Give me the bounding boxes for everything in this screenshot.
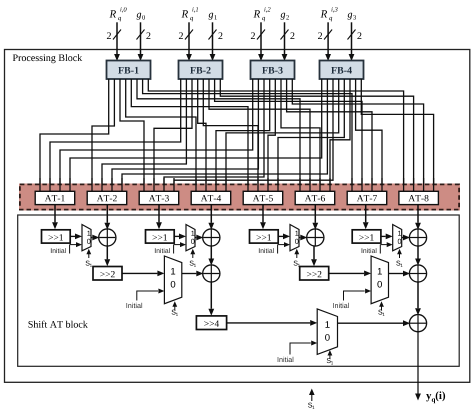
wire mux to adder (stage2 group 2) [389,271,411,277]
wire AT-4 output to adder [208,205,214,230]
wire AT-6 output to adder [312,205,318,230]
wire input g0 to FB-1 (2 bits) [137,22,151,61]
select S1 into mux (stage3) [327,350,333,365]
wire FB-4 output 2 to AT-2 input 4 [122,79,327,192]
wire input Rq i,0 to FB-1 (2 bits) [107,22,121,61]
wire FB-1 output 7 to AT-7 input 1 [143,79,352,192]
wire into AT-8 pin 2 [413,178,415,192]
input label Rq i,3 [321,7,338,21]
wire FB-1 output 8 to AT-8 input 1 [148,79,403,192]
adder (stage2 group 1) [203,265,220,282]
wire FB-3 output 7 to AT-7 input 3 [287,79,372,192]
wire into AT-8 pin 3 [423,178,425,192]
wire shifter >>2 to mux (stage2 group 2) [329,271,371,277]
wire into AT-4 pin 3 [215,178,217,192]
wire FB-3 output 6 to AT-6 input 3 [281,79,320,192]
shifter >>1 (group 1) [42,230,71,243]
wire shifter to mux input 1 (group 3) [278,234,290,240]
block AT-6 [295,191,335,204]
mux 2:1 (group 1) [82,225,91,251]
wire FB-2 output 2 to AT-2 input 2 [102,79,186,192]
wire into AT-2 pin 3 [111,178,113,192]
select S1 into mux (group 1) [86,249,92,267]
wire FB-3 output 3 to AT-3 input 3 [164,79,264,192]
wire FB-2 output 8 to AT-8 input 2 [220,79,413,192]
shifter >>2 (stage2 group 1) [93,267,122,281]
wire FB-1 output 5 to AT-5 input 1 [131,79,248,192]
wire stage2 adder down to final adder [415,282,421,316]
wire FB-4 output 6 to AT-6 input 4 [330,79,350,192]
wire AT-7 output to shifter [363,205,369,230]
wire stage2 adder to shifter >>4 [208,282,214,316]
select S1 into mux (group 2) [190,249,196,267]
wire FB-2 output 6 to AT-6 input 2 [209,79,310,192]
Shift AT block enclosure [18,215,460,366]
wire shifter to mux input 1 (group 1) [70,234,82,240]
select S1 into mux (stage2 group 2) [378,301,384,316]
output label yq(i) [426,391,445,403]
wire AT-3 output to shifter [156,205,162,230]
wire mux to adder (stage2 group 1) [182,271,204,277]
wire FB-4 output 4 to AT-4 input 4 [226,79,339,192]
adder (group 3) [307,229,324,246]
block FB-2 [179,61,223,80]
select S1 into mux (group 4) [396,249,402,267]
wire shifter to mux input 1 (group 4) [381,234,393,240]
wire FB-3 output 1 to AT-1 input 3 [60,79,253,192]
wire FB-1 output 4 to AT-4 input 1 [126,79,196,192]
final adder [409,315,426,332]
Initial input (stage2 group 2) [333,289,371,309]
shifter >>1 (group 4) [352,230,381,243]
wire FB-1 output 1 to AT-1 input 1 [40,79,109,192]
input label g0 [137,13,146,20]
wire upper adder down to stage2 adder (group 1) [208,246,214,266]
wire into AT-6 pin 2 [309,178,311,192]
wire upper adder down to stage2 adder (group 2) [415,246,421,266]
adder (group 4) [409,229,426,246]
wire FB-4 output 5 to AT-5 input 4 [278,79,344,192]
wire into AT-2 pin 4 [121,178,123,192]
wire FB-1 output 2 to AT-2 input 1 [92,79,114,192]
wire into AT-7 pin 4 [381,178,383,192]
wire adder to shifter >>2 (stage2 group 1) [104,246,110,267]
wire into AT-2 pin 1 [91,178,93,192]
wire mux to adder (group 3) [299,235,307,241]
wire into AT-1 pin 2 [49,178,51,192]
wire mux to adder (group 4) [402,235,410,241]
block AT-3 [139,191,179,204]
shifter >>1 (group 3) [250,230,279,243]
wire into AT-4 pin 4 [225,178,227,192]
Initial input (stage2 group 1) [127,289,165,309]
block AT-1 [35,191,74,204]
wire into AT-3 pin 1 [143,178,145,192]
wire FB-2 output 4 to AT-4 input 2 [198,79,206,192]
shifter >>4 [196,316,226,330]
wire into AT-1 pin 3 [59,178,61,192]
Initial input (group 2) [155,242,186,253]
wire FB-4 output 1 to AT-1 input 4 [70,79,322,192]
wire into AT-5 pin 1 [247,178,249,192]
block FB-4 [320,61,364,80]
wire into AT-4 pin 1 [195,178,197,192]
input label Rq i,1 [181,7,198,21]
select S1 into mux (stage2 group 1) [172,301,178,316]
wire AT-2 output to adder [104,205,110,230]
wire into AT-1 pin 4 [69,178,71,192]
wire FB-2 output 1 to AT-1 input 2 [50,79,181,192]
wire adder to shifter >>2 (stage2 group 2) [311,246,317,267]
wire into AT-4 pin 2 [205,178,207,192]
wire into AT-5 pin 3 [267,178,269,192]
wire mux to adder (group 1) [91,235,99,241]
mux 2:1 (group 3) [290,225,299,251]
wire into AT-1 pin 1 [39,178,41,192]
wire AT-1 output to shifter [52,205,58,230]
wire input g2 to FB-3 (2 bits) [281,22,295,61]
wire FB-2 output 3 to AT-3 input 2 [154,79,192,192]
wire FB-1 output 6 to AT-6 input 1 [137,79,300,192]
block AT-4 [191,191,231,204]
wire mux to adder (group 2) [195,235,203,241]
mux 2:1 (group 4) [393,225,402,251]
Initial input (group 1) [51,242,82,253]
output wire yq(i) [415,331,421,400]
adder (stage2 group 2) [409,265,426,282]
wire input Rq i,1 to FB-2 (2 bits) [179,22,193,61]
wire input g3 to FB-4 (2 bits) [348,22,362,61]
mux 2:1 (group 2) [186,225,195,251]
wire into AT-5 pin 2 [257,178,259,192]
input label g3 [348,13,357,20]
wire into AT-7 pin 2 [361,178,363,192]
wire into AT-8 pin 4 [433,178,435,192]
wire FB-1 output 3 to AT-3 input 1 [120,79,144,192]
input label g2 [281,13,289,20]
wire shifter to mux input 1 (group 2) [174,234,186,240]
wire FB-3 output 4 to AT-4 input 3 [216,79,270,192]
input label Rq i,2 [253,7,270,21]
wire AT-8 output to adder [415,205,421,230]
mux 2:1 (stage2 group 1) [164,256,181,304]
block AT-7 [347,191,387,204]
wire into AT-8 pin 1 [403,178,405,192]
wire input Rq i,3 to FB-4 (2 bits) [318,22,332,61]
mux 2:1 (stage2 group 2) [371,256,388,304]
wire into AT-3 pin 3 [163,178,165,192]
adder (group 1) [99,229,116,246]
block AT-5 [243,191,283,204]
wire into AT-3 pin 4 [173,178,175,192]
select S1 into mux (group 3) [294,249,300,267]
block FB-3 [251,61,295,80]
wire shifter >>4 to mux [227,320,318,326]
wire into AT-5 pin 4 [277,178,279,192]
input label Rq i,0 [109,7,126,21]
wire into AT-6 pin 4 [329,178,331,192]
block AT-8 [399,191,439,204]
wire into AT-6 pin 3 [319,178,321,192]
shifter >>1 (group 2) [146,230,175,243]
select input S1 (bottom) [308,389,315,410]
adder (group 2) [203,229,220,246]
wire FB-4 output 3 to AT-3 input 4 [174,79,333,192]
wire shifter >>2 to mux (stage2 group 1) [122,271,164,277]
Processing Block enclosure [5,50,470,383]
wire FB-3 output 8 to AT-8 input 3 [292,79,423,192]
AT block band (dashed) [19,184,460,211]
Initial input (group 4) [362,242,393,253]
wire input Rq i,2 to FB-3 (2 bits) [251,22,265,61]
wire into AT-7 pin 3 [371,178,373,192]
mux 2:1 (stage3) [317,309,337,355]
wire mux to final adder [338,320,411,326]
wire into AT-3 pin 2 [153,178,155,192]
wire FB-4 output 8 to AT-8 input 4 [361,79,433,192]
wire FB-2 output 5 to AT-5 input 2 [203,79,258,192]
input label g1 [209,13,217,20]
wire FB-2 output 7 to AT-7 input 2 [215,79,362,192]
wire into AT-6 pin 1 [299,178,301,192]
Initial input (stage3) [278,341,318,363]
wire FB-3 output 2 to AT-2 input 3 [112,79,258,192]
shifter >>2 (stage2 group 2) [300,267,329,281]
wire into AT-2 pin 2 [101,178,103,192]
Initial input (group 3) [259,242,290,253]
wire into AT-7 pin 1 [351,178,353,192]
wire AT-5 output to shifter [260,205,266,230]
block AT-2 [87,191,127,204]
block FB-1 [107,61,151,80]
wire input g1 to FB-2 (2 bits) [209,22,223,61]
wire FB-3 output 5 to AT-5 input 3 [268,79,275,192]
wire FB-4 output 7 to AT-7 input 4 [356,79,382,192]
